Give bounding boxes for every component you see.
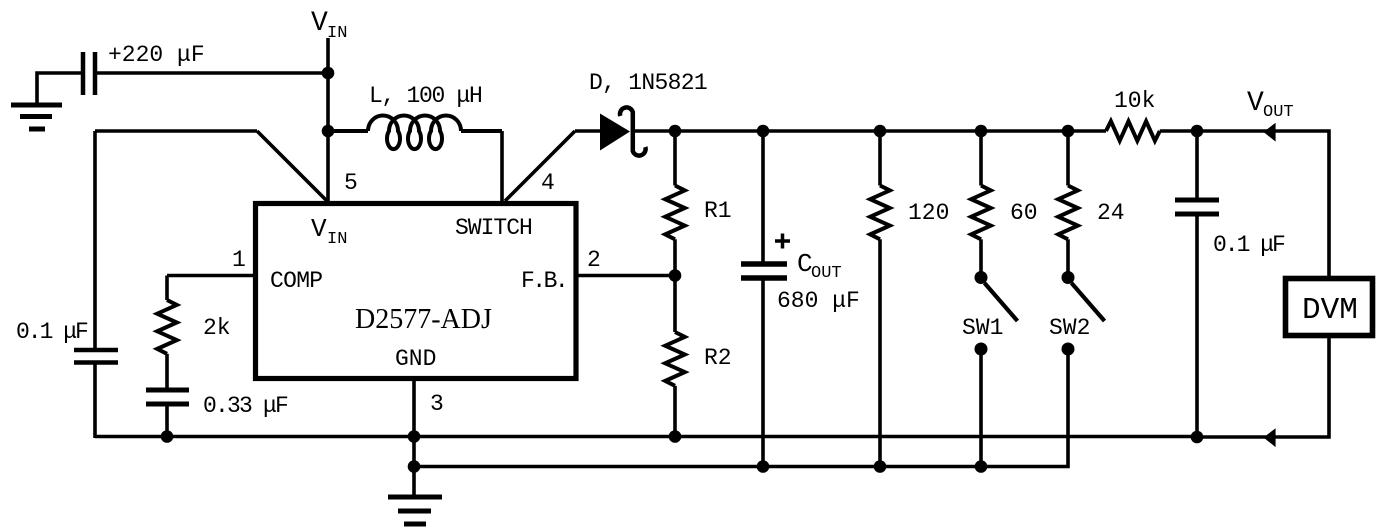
node GND-bus2 dot xyxy=(408,460,421,473)
svg-text:V: V xyxy=(1247,88,1264,119)
wire COUT bottom lead xyxy=(761,278,765,466)
resistor 120 xyxy=(870,186,890,240)
wire R1 bottom lead xyxy=(673,239,677,332)
wire 24 top lead xyxy=(1066,131,1070,186)
wire diagonal pin 4 to diode xyxy=(505,131,575,201)
node FB dot xyxy=(669,269,682,282)
wire 0.1uF right bottom lead xyxy=(1195,214,1199,437)
wire DVM bottom lead xyxy=(1197,335,1329,437)
svg-text:SW1: SW1 xyxy=(962,315,1003,341)
wire COUT top lead xyxy=(761,131,765,262)
ground (bottom) xyxy=(388,497,442,524)
arrow probe bottom xyxy=(1264,428,1276,447)
svg-text:R2: R2 xyxy=(704,345,732,371)
node VIN junction dot upper xyxy=(322,67,335,80)
resistor 24 xyxy=(1058,186,1078,240)
node 120 dot xyxy=(874,125,887,138)
wire diagonal to pin 5 xyxy=(257,131,327,201)
svg-text:GND: GND xyxy=(395,346,436,372)
meter DVM box xyxy=(1286,279,1373,336)
wire ground bus 1 xyxy=(95,435,1199,439)
node VOUT dot xyxy=(1191,125,1204,138)
wire 0.1uF right top lead xyxy=(1195,131,1199,198)
wire cap to ground bus xyxy=(93,363,97,439)
node R2-gnd dot xyxy=(669,430,682,443)
svg-text:3: 3 xyxy=(430,391,444,417)
node 24 dot xyxy=(1062,125,1075,138)
svg-text:L, 100 μH: L, 100 μH xyxy=(369,83,482,109)
node VIN label xyxy=(311,8,347,43)
resistor 2k xyxy=(157,300,177,354)
wire R1 top lead xyxy=(673,131,677,186)
capacitor CIN +220uF xyxy=(83,52,95,95)
wire SW2 to bus2 corner xyxy=(414,349,1068,467)
svg-text:IN: IN xyxy=(327,230,347,249)
wire FB pin xyxy=(576,274,675,278)
svg-text:R1: R1 xyxy=(704,198,732,224)
svg-text:1: 1 xyxy=(232,247,246,273)
node COUT dot xyxy=(757,125,770,138)
svg-text:60: 60 xyxy=(1010,200,1038,226)
svg-text:2k: 2k xyxy=(203,315,231,341)
svg-text:120: 120 xyxy=(908,200,949,226)
node 120-bus2 dot xyxy=(874,460,887,473)
wire input cap to VIN xyxy=(96,71,328,75)
wire R2 bottom lead xyxy=(673,386,677,436)
resistor 10k xyxy=(1106,121,1160,141)
node SW1-bus2 dot xyxy=(975,460,988,473)
IC U1 D2577-ADJ box xyxy=(256,204,577,379)
node 2k-gnd dot xyxy=(161,430,174,443)
svg-text:10k: 10k xyxy=(1114,88,1155,114)
node diode-R1 dot xyxy=(669,125,682,138)
node VIN junction dot lower xyxy=(322,125,335,138)
node GND-bus1 dot xyxy=(408,430,421,443)
wire GND pin xyxy=(412,380,416,495)
svg-text:SW2: SW2 xyxy=(1049,315,1090,341)
wire diode anode xyxy=(575,129,602,133)
wire bypass branch vertical xyxy=(93,131,97,348)
capacitor COUT 680uF xyxy=(741,264,787,278)
capacitor 0.1uF (right) xyxy=(1175,200,1219,214)
svg-text:V: V xyxy=(311,8,328,39)
wire 120 top lead xyxy=(878,131,882,186)
wire comp branch down xyxy=(165,276,169,301)
wire 2k to cap xyxy=(165,354,169,388)
pin label VIN xyxy=(311,214,347,249)
node 60 dot xyxy=(975,125,988,138)
svg-text:5: 5 xyxy=(344,170,358,196)
wire 10k to vout xyxy=(1160,129,1197,133)
wire 24 to switch xyxy=(1066,239,1070,277)
ground (top left) xyxy=(11,105,62,129)
diode D 1N5821 xyxy=(600,107,646,155)
svg-text:D, 1N5821: D, 1N5821 xyxy=(589,70,707,96)
wire 24 node to 10k xyxy=(1068,129,1106,133)
svg-text:F.B.: F.B. xyxy=(521,268,566,294)
value label COUT xyxy=(797,249,842,283)
svg-text:V: V xyxy=(311,214,327,244)
svg-text:0.1 μF: 0.1 μF xyxy=(16,319,88,345)
wire COMP pin xyxy=(167,274,255,278)
node 0.1uF-bus dot xyxy=(1191,431,1204,444)
svg-text:COMP: COMP xyxy=(270,268,322,294)
svg-text:0.1 μF: 0.1 μF xyxy=(1213,232,1285,258)
svg-text:4: 4 xyxy=(541,170,555,196)
resistor 60 xyxy=(971,186,991,240)
svg-text:OUT: OUT xyxy=(1263,103,1294,122)
wire inductor to pin 4 xyxy=(500,131,504,201)
svg-text:D2577-ADJ: D2577-ADJ xyxy=(355,304,492,335)
plus sign xyxy=(775,234,790,249)
wire output top rail xyxy=(633,129,1068,133)
wire cap to ground bus xyxy=(165,404,169,436)
wire 60 top lead xyxy=(979,131,983,186)
wire 60 to switch xyxy=(979,239,983,277)
svg-text:IN: IN xyxy=(327,24,347,43)
resistor R1 xyxy=(665,186,685,240)
svg-text:24: 24 xyxy=(1097,200,1125,226)
svg-text:0.33 μF: 0.33 μF xyxy=(203,393,288,419)
arrow probe top xyxy=(1264,123,1276,142)
inductor L 100uH xyxy=(328,115,502,149)
wire cap to ground xyxy=(37,73,81,103)
switch SW2 xyxy=(1062,271,1105,356)
svg-text:680 μF: 680 μF xyxy=(777,288,860,314)
svg-text:+220 μF: +220 μF xyxy=(108,42,205,68)
wire VIN vertical xyxy=(326,38,330,201)
wire bypass branch horizontal xyxy=(95,129,257,133)
node VOUT label xyxy=(1247,88,1294,122)
wire vout to dvm corner xyxy=(1197,131,1329,278)
capacitor 0.33uF xyxy=(146,390,189,404)
switch SW1 xyxy=(975,271,1018,356)
svg-text:2: 2 xyxy=(587,247,601,273)
svg-text:SWITCH: SWITCH xyxy=(455,215,532,241)
capacitor 0.1uF (left) xyxy=(74,350,118,363)
wire 120 bottom lead xyxy=(878,239,882,466)
wire SW1 to bus2 xyxy=(979,349,983,466)
resistor R2 xyxy=(665,332,685,386)
node COUT-bus2 dot xyxy=(757,460,770,473)
svg-text:OUT: OUT xyxy=(811,264,842,283)
svg-text:DVM: DVM xyxy=(1302,293,1358,328)
